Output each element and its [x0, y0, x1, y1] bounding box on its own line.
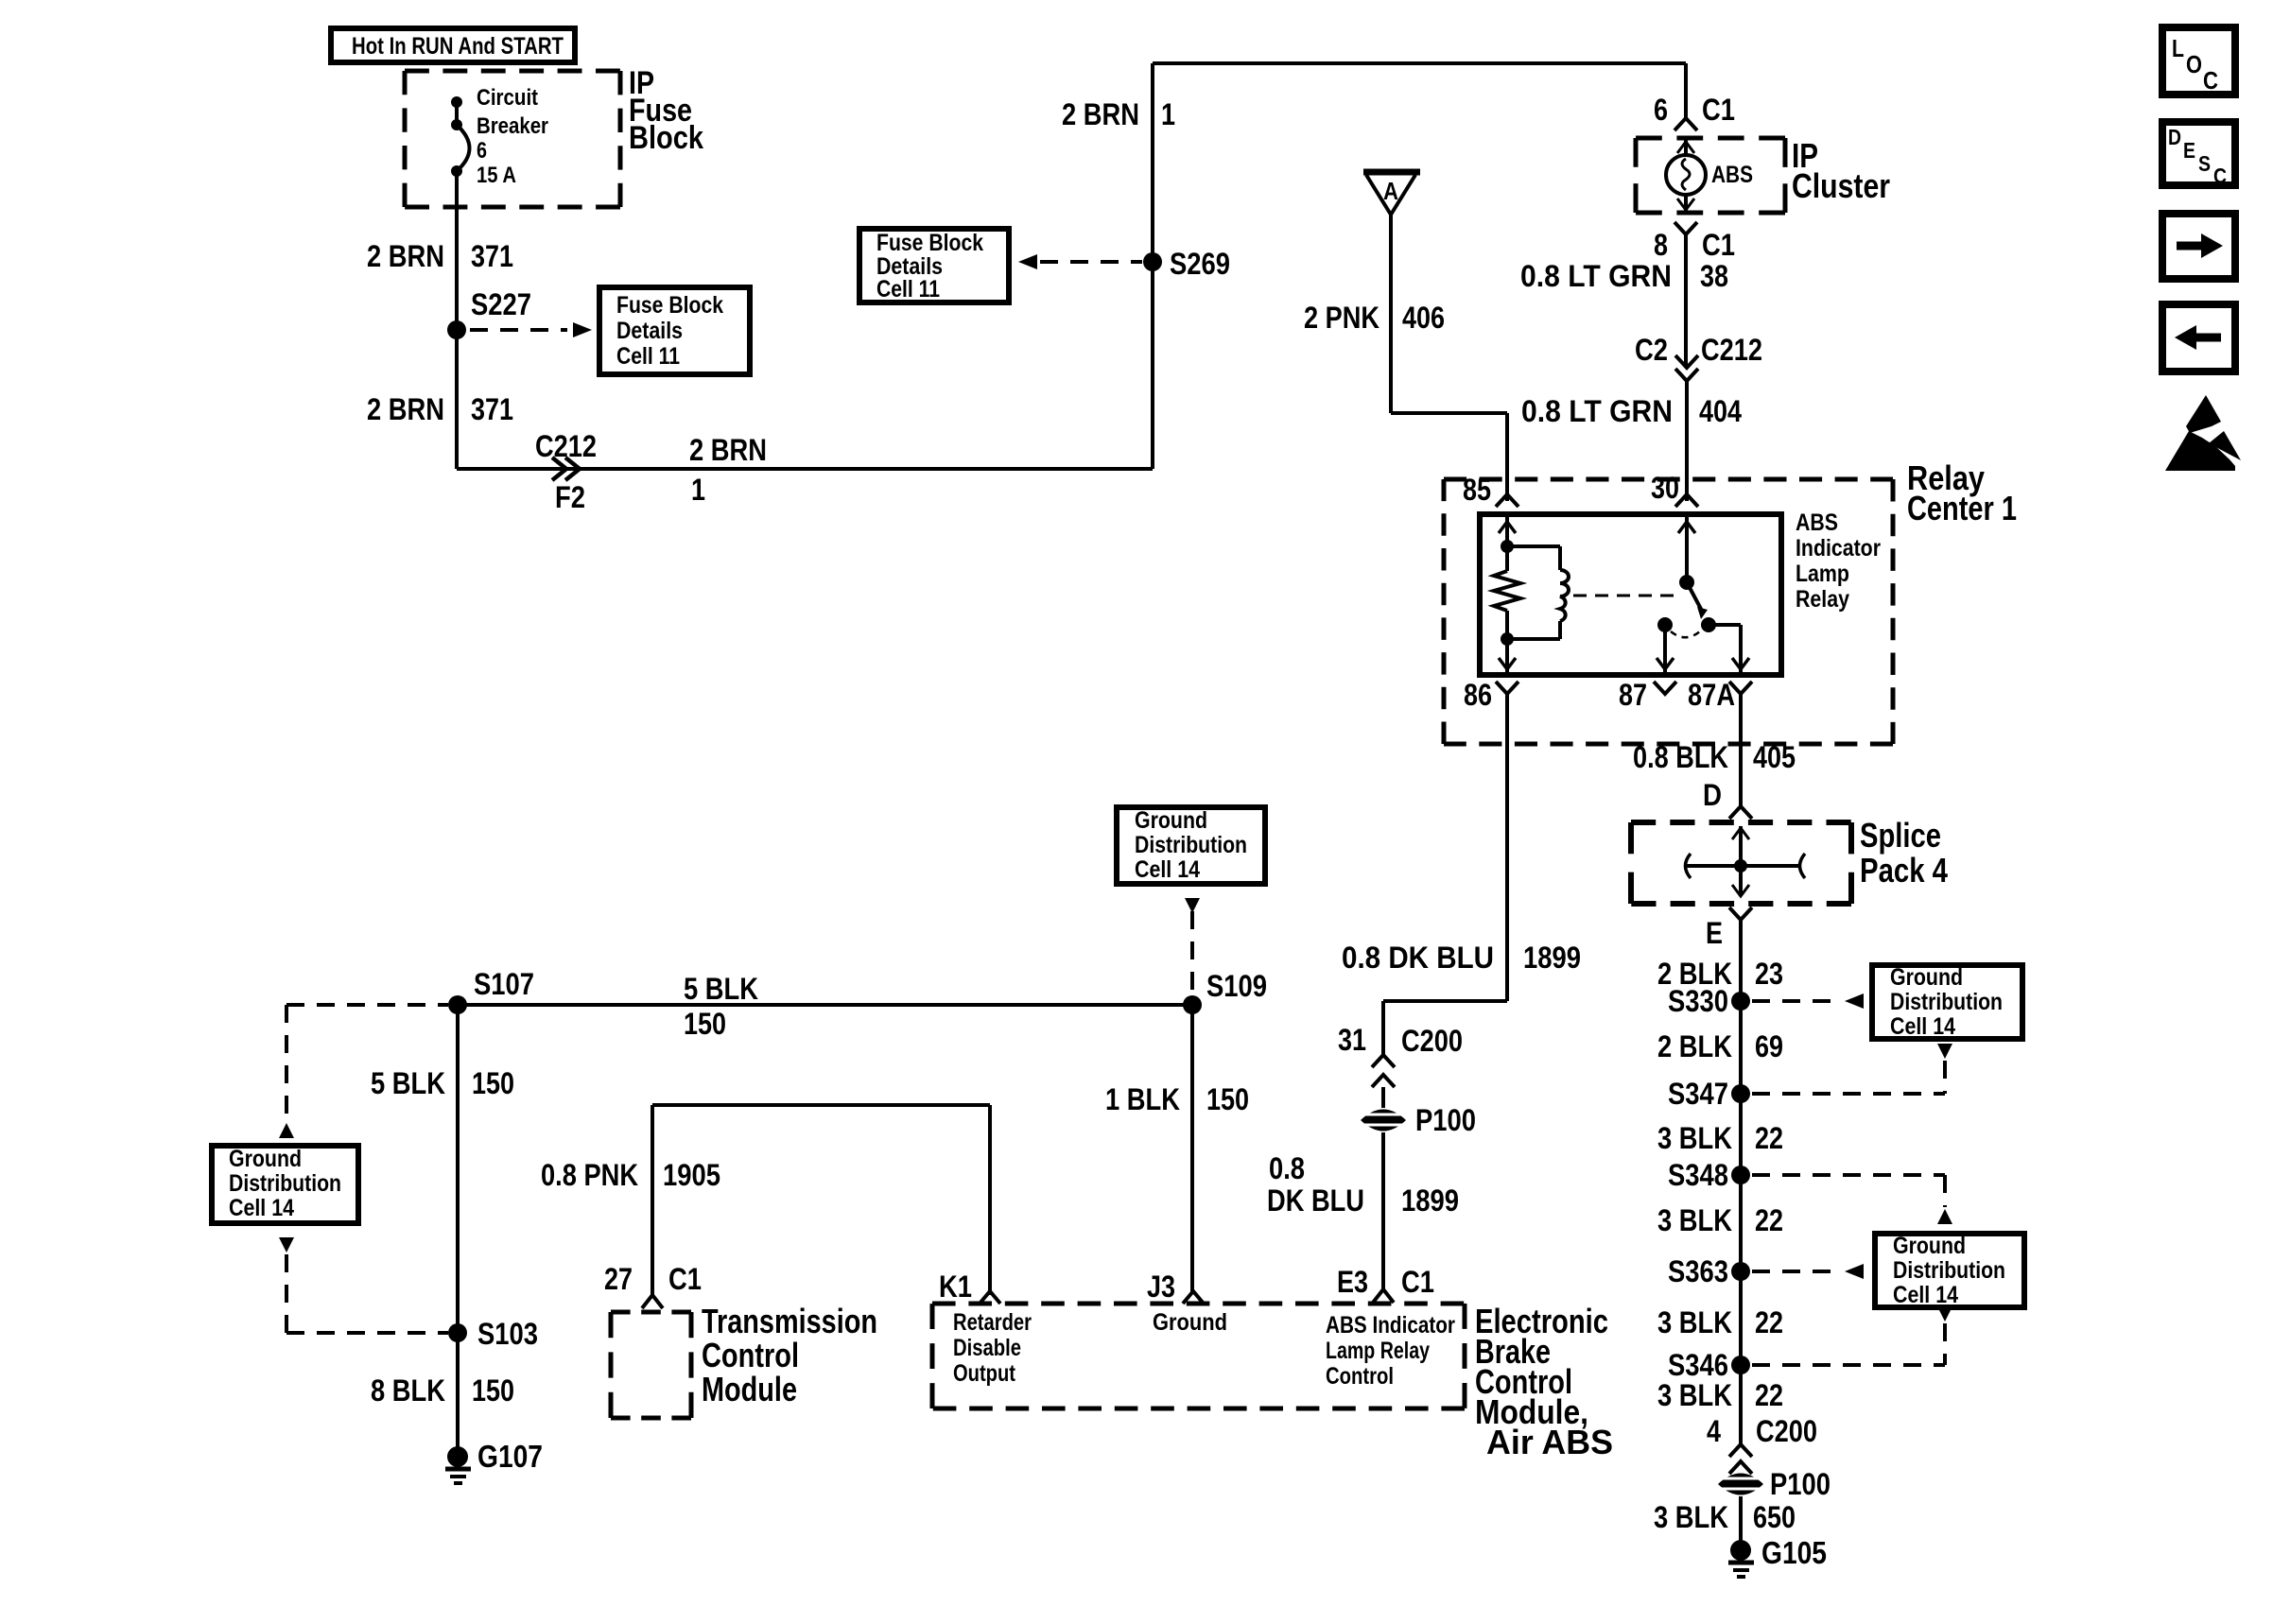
svg-text:Ground: Ground	[1153, 1309, 1227, 1336]
splice pack internals	[1685, 826, 1805, 896]
label: 5 BLK 150 (horizontal run)	[684, 972, 758, 1041]
label: 0.8 DK BLU 1899	[1342, 941, 1581, 975]
label: 5 BLK 150 (vertical)	[371, 1066, 514, 1100]
svg-text:P100: P100	[1415, 1103, 1476, 1137]
svg-text:6: 6	[477, 138, 487, 164]
callout box: Ground Distribution Cell 14 (lower right)	[1875, 1233, 2024, 1308]
pin function: Retarder Disable Output	[953, 1309, 1032, 1387]
svg-text:371: 371	[471, 392, 513, 426]
svg-text:650: 650	[1753, 1500, 1796, 1534]
wire: top rail to IP cluster	[1153, 63, 1686, 118]
svg-text:Control: Control	[1326, 1363, 1394, 1390]
svg-text:S107: S107	[474, 967, 534, 1001]
wire: circuit breaker to C212 (2 BRN 371)	[455, 171, 459, 469]
svg-text:87: 87	[1619, 678, 1647, 712]
reference arrow: S363 to Ground Distribution	[1752, 1264, 1864, 1279]
svg-text:Indicator: Indicator	[1796, 535, 1881, 561]
svg-text:Distribution: Distribution	[1893, 1257, 2005, 1284]
svg-text:23: 23	[1755, 957, 1783, 991]
svg-text:2 BRN: 2 BRN	[367, 392, 444, 426]
wire: ground chain E to C200	[1739, 920, 1743, 1446]
svg-text:2 BLK: 2 BLK	[1657, 1029, 1732, 1063]
svg-text:150: 150	[472, 1373, 514, 1408]
svg-text:Ground: Ground	[1135, 807, 1207, 834]
sidebar icon: left arrow	[2162, 304, 2235, 371]
svg-text:ABS: ABS	[1796, 510, 1838, 536]
module label: Relay Center 1	[1907, 458, 2017, 527]
svg-text:C2: C2	[1635, 333, 1668, 367]
reference arrow: S330 to Ground Distribution	[1752, 993, 1864, 1009]
svg-text:C1: C1	[668, 1262, 702, 1296]
relay coil junction top	[1501, 540, 1514, 553]
wire: vertical up from horizontal feed to top rail	[1151, 63, 1154, 469]
svg-text:22: 22	[1755, 1203, 1783, 1237]
connector C212 F2 (inline, >>)	[535, 429, 597, 514]
label: 1 BLK 150	[1105, 1082, 1249, 1116]
svg-text:S269: S269	[1170, 247, 1230, 281]
wire: 0.8 PNK 1905 (TCM to EBCM K1)	[652, 1105, 990, 1295]
svg-text:Cell 14: Cell 14	[1893, 1282, 1958, 1308]
svg-text:C1: C1	[1702, 93, 1735, 127]
svg-text:K1: K1	[939, 1270, 972, 1304]
svg-text:Module: Module	[702, 1370, 797, 1408]
relay pin 87 connector	[1619, 678, 1676, 712]
svg-text:Splice: Splice	[1860, 816, 1941, 855]
svg-text:C: C	[2203, 66, 2218, 95]
splice S109	[1183, 969, 1267, 1014]
sidebar icon: ESD warning symbol	[2165, 395, 2241, 471]
node E	[1706, 907, 1752, 950]
pin 8 C1 of IP cluster	[1654, 222, 1735, 262]
svg-text:3 BLK: 3 BLK	[1657, 1305, 1732, 1339]
svg-text:C1: C1	[1702, 228, 1735, 262]
splice S107	[448, 967, 534, 1014]
svg-text:Circuit: Circuit	[477, 85, 538, 111]
svg-text:Lamp Relay: Lamp Relay	[1326, 1338, 1430, 1364]
label: 0.8 DK BLU 1899 (two line)	[1267, 1151, 1459, 1218]
label: 2 PNK 406	[1304, 301, 1445, 335]
svg-text:Cell 14: Cell 14	[1135, 856, 1200, 883]
svg-text:3 BLK: 3 BLK	[1654, 1500, 1728, 1534]
reference arrow: S227 to Fuse Block Details	[470, 322, 592, 337]
svg-text:406: 406	[1402, 301, 1445, 335]
svg-text:Output: Output	[953, 1360, 1016, 1387]
svg-text:Distribution: Distribution	[1135, 832, 1247, 858]
svg-text:0.8 BLK: 0.8 BLK	[1633, 740, 1728, 774]
pin E3 C1 of EBCM	[1337, 1265, 1434, 1303]
svg-text:S103: S103	[477, 1317, 538, 1351]
svg-text:0.8 LT GRN: 0.8 LT GRN	[1520, 259, 1672, 293]
pin K1 of EBCM	[939, 1270, 1000, 1304]
wire: 0.8 DK BLU 1899 (relay 86 to EBCM E3)	[1383, 694, 1507, 1055]
svg-text:8 BLK: 8 BLK	[371, 1373, 445, 1408]
svg-text:4: 4	[1707, 1414, 1721, 1448]
svg-text:Hot In RUN And START: Hot In RUN And START	[352, 33, 564, 60]
label: 2 BLK 69	[1657, 1029, 1783, 1063]
label: 2 BLK 23	[1657, 957, 1783, 991]
svg-text:E: E	[2183, 138, 2195, 163]
module label: IP Cluster	[1792, 136, 1890, 205]
svg-text:5 BLK: 5 BLK	[371, 1066, 445, 1100]
reference link: Ground Distribution to S347	[1752, 1044, 1952, 1094]
svg-text:Cell 11: Cell 11	[616, 343, 680, 370]
connector C2 C212 (inline)	[1635, 333, 1762, 381]
svg-text:S348: S348	[1668, 1158, 1728, 1192]
label: 2 BRN 371 (upper)	[367, 239, 513, 273]
svg-text:Breaker: Breaker	[477, 113, 548, 139]
node D	[1703, 778, 1752, 819]
svg-text:0.8: 0.8	[1269, 1151, 1305, 1185]
splice S348	[1668, 1158, 1750, 1192]
svg-text:F2: F2	[555, 480, 585, 514]
module label: Splice Pack 4	[1860, 816, 1948, 890]
callout box: Ground Distribution Cell 14 (top middle)	[1117, 807, 1265, 884]
svg-text:0.8 LT GRN: 0.8 LT GRN	[1521, 394, 1673, 428]
pin 6 C1 of IP cluster	[1654, 93, 1735, 130]
Transmission Control Module (dashed box)	[611, 1312, 691, 1418]
label: 2 BRN 1 (top vertical wire)	[1062, 97, 1175, 131]
splice S346	[1668, 1348, 1750, 1382]
svg-text:S347: S347	[1668, 1077, 1728, 1111]
circuit breaker 6 (15 A)	[451, 85, 548, 188]
power source box: Hot In RUN And START	[331, 28, 575, 62]
connector 31 C200 (inline)	[1338, 1023, 1463, 1087]
svg-text:Cluster: Cluster	[1792, 166, 1890, 205]
svg-text:Retarder: Retarder	[953, 1309, 1032, 1336]
ABS indicator lamp in cluster	[1666, 138, 1753, 213]
svg-text:405: 405	[1753, 740, 1796, 774]
svg-text:C: C	[2213, 164, 2227, 188]
reference arrow: S269 to Fuse Block Details	[1018, 254, 1142, 269]
svg-text:85: 85	[1463, 473, 1491, 507]
label: 0.8 LT GRN 404	[1521, 394, 1742, 428]
svg-text:S363: S363	[1668, 1254, 1728, 1288]
svg-text:J3: J3	[1147, 1270, 1175, 1304]
svg-text:5 BLK: 5 BLK	[684, 972, 758, 1006]
relay pin 86 connector	[1464, 678, 1518, 712]
reference link: S348 to Ground Distribution	[1752, 1175, 1952, 1224]
IP Cluster (dashed box)	[1636, 138, 1785, 213]
connector 4 C200 (inline)	[1707, 1414, 1817, 1474]
svg-text:15 A: 15 A	[477, 163, 516, 188]
callout box: Ground Distribution Cell 14 (upper right)	[1872, 964, 2022, 1040]
label: 3 BLK 22 (S347-S348)	[1657, 1121, 1783, 1155]
svg-text:6: 6	[1654, 93, 1668, 127]
module label: Electronic Brake Control Module, Air ABS	[1475, 1302, 1613, 1461]
svg-text:1 BLK: 1 BLK	[1105, 1082, 1180, 1116]
svg-text:ABS: ABS	[1711, 162, 1753, 188]
svg-text:150: 150	[684, 1007, 726, 1041]
svg-text:S330: S330	[1668, 984, 1728, 1018]
wire: horizontal feed to S269 branch (2 BRN 1)	[457, 467, 1153, 471]
relay pin 30	[1651, 471, 1698, 507]
svg-text:22: 22	[1755, 1121, 1783, 1155]
svg-text:E: E	[1706, 916, 1723, 950]
svg-text:69: 69	[1755, 1029, 1783, 1063]
svg-text:A: A	[1383, 177, 1398, 205]
svg-text:S109: S109	[1206, 969, 1267, 1003]
relay pin 85	[1463, 473, 1518, 507]
splice S103	[448, 1317, 538, 1351]
wire: 2 PNK 406 (A to relay pin 85)	[1391, 215, 1507, 501]
label: 8 BLK 150	[371, 1373, 514, 1408]
wire: S109 to EBCM J3 (1 BLK 150)	[1190, 1005, 1194, 1291]
svg-text:22: 22	[1755, 1378, 1783, 1412]
svg-text:3 BLK: 3 BLK	[1657, 1203, 1732, 1237]
grommet P100 (right)	[1718, 1467, 1831, 1501]
relay pin 87A connector	[1688, 678, 1752, 712]
svg-text:22: 22	[1755, 1305, 1783, 1339]
svg-text:2 BRN: 2 BRN	[1062, 97, 1139, 131]
svg-text:2 BRN: 2 BRN	[689, 433, 767, 467]
Splice Pack 4 (dashed box)	[1631, 822, 1851, 904]
pin 27 C1 of TCM	[604, 1262, 702, 1308]
svg-text:86: 86	[1464, 678, 1492, 712]
relay pin 86 internal arrow	[1499, 639, 1516, 675]
svg-text:38: 38	[1700, 259, 1728, 293]
svg-text:2 PNK: 2 PNK	[1304, 301, 1379, 335]
splice S330	[1668, 984, 1750, 1018]
svg-text:1899: 1899	[1401, 1183, 1459, 1218]
svg-text:1905: 1905	[663, 1158, 720, 1192]
svg-text:Center 1: Center 1	[1907, 489, 2017, 527]
off-page connector A (triangle)	[1363, 172, 1420, 215]
svg-text:Relay: Relay	[1796, 586, 1849, 613]
sidebar icon: LOC	[2162, 27, 2235, 95]
svg-text:371: 371	[471, 239, 513, 273]
svg-text:Fuse Block: Fuse Block	[616, 292, 723, 319]
svg-text:Details: Details	[616, 318, 683, 344]
svg-text:Lamp: Lamp	[1796, 561, 1849, 587]
svg-text:150: 150	[472, 1066, 514, 1100]
svg-text:Block: Block	[629, 120, 703, 156]
splice S227	[447, 287, 531, 339]
wire: 0.8 LT GRN 404 (C212 to relay pin 30)	[1685, 381, 1689, 501]
svg-text:Transmission: Transmission	[702, 1302, 877, 1340]
relay contact 87	[1657, 617, 1701, 675]
svg-text:Air ABS: Air ABS	[1486, 1423, 1613, 1461]
wire: 0.8 LT GRN 38 (cluster to C212)	[1684, 234, 1688, 367]
callout box: Ground Distribution Cell 14 (left)	[212, 1146, 358, 1223]
splice S269	[1143, 247, 1230, 281]
svg-text:S227: S227	[471, 287, 531, 321]
pin function: Ground	[1153, 1309, 1227, 1336]
svg-text:C212: C212	[1701, 333, 1762, 367]
svg-text:3 BLK: 3 BLK	[1657, 1378, 1732, 1412]
svg-text:3 BLK: 3 BLK	[1657, 1121, 1732, 1155]
svg-text:C200: C200	[1756, 1414, 1817, 1448]
svg-text:87A: 87A	[1688, 678, 1735, 712]
callout box: Fuse Block Details Cell 11 (left)	[599, 287, 750, 374]
svg-text:L: L	[2172, 34, 2184, 62]
Electronic Brake Control Module (dashed box)	[932, 1304, 1465, 1408]
ABS Indicator Lamp Relay (solid box)	[1480, 514, 1781, 675]
ground G105	[1728, 1496, 1827, 1577]
relay coil input arrow (pin 85)	[1499, 514, 1516, 546]
relay coil junction bottom	[1501, 632, 1514, 646]
wire: 0.8 BLK 405 (87A to splice pack)	[1739, 694, 1743, 806]
relay function label: ABS Indicator Lamp Relay	[1796, 510, 1881, 613]
svg-text:Ground: Ground	[229, 1146, 302, 1172]
module label: IP Fuse Block	[629, 65, 703, 156]
svg-text:Fuse Block: Fuse Block	[876, 230, 983, 256]
svg-text:Control: Control	[702, 1336, 799, 1374]
svg-text:P100: P100	[1770, 1467, 1831, 1501]
label: 0.8 PNK 1905	[541, 1158, 720, 1192]
resistor (relay coil suppression)	[1494, 546, 1520, 639]
label: 3 BLK 650	[1654, 1500, 1796, 1534]
pin J3 of EBCM	[1147, 1270, 1204, 1304]
Relay Center 1 (dashed box)	[1444, 479, 1893, 744]
reference link: Ground Distribution to S346	[1752, 1306, 1952, 1365]
IP Fuse Block (dashed box)	[405, 71, 620, 207]
relay pin 87A internal wire	[1732, 625, 1749, 675]
svg-text:0.8 PNK: 0.8 PNK	[541, 1158, 638, 1192]
relay contact 87A	[1701, 617, 1741, 632]
svg-text:ABS Indicator: ABS Indicator	[1326, 1312, 1455, 1339]
module label: Transmission Control Module	[702, 1302, 877, 1408]
svg-text:Ground: Ground	[1890, 964, 1963, 991]
svg-text:C200: C200	[1401, 1024, 1463, 1058]
callout box: Fuse Block Details Cell 11 (middle)	[859, 229, 1009, 302]
svg-text:Cell 14: Cell 14	[229, 1195, 294, 1221]
pin function: ABS Indicator Lamp Relay Control	[1326, 1312, 1455, 1390]
svg-text:8: 8	[1654, 228, 1668, 262]
svg-text:150: 150	[1206, 1082, 1249, 1116]
svg-text:30: 30	[1651, 471, 1679, 505]
relay switch common (pin 30)	[1678, 514, 1695, 590]
svg-text:S: S	[2198, 151, 2211, 176]
label: 2 BRN 371 (lower)	[367, 392, 513, 426]
svg-text:1: 1	[1161, 97, 1175, 131]
svg-text:O: O	[2186, 50, 2202, 78]
label: 0.8 LT GRN 38	[1520, 259, 1728, 293]
label: 3 BLK 22 (S346-C200)	[1657, 1378, 1783, 1412]
relay actuation link (dashed)	[1573, 595, 1679, 597]
svg-text:2 BRN: 2 BRN	[367, 239, 444, 273]
wire: S107 to S109 (5 BLK 150)	[458, 1003, 1192, 1007]
reference link: S107 to Ground Distribution (dashed)	[279, 1005, 448, 1138]
grommet P100 (left)	[1361, 1087, 1476, 1137]
svg-text:1899: 1899	[1523, 941, 1581, 975]
wire: DK BLU to EBCM pin E3	[1381, 1132, 1385, 1291]
svg-text:Disable: Disable	[953, 1335, 1021, 1361]
svg-text:D: D	[1703, 778, 1722, 812]
svg-text:DK BLU: DK BLU	[1267, 1183, 1364, 1218]
svg-text:0.8 DK BLU: 0.8 DK BLU	[1342, 941, 1494, 975]
svg-text:Cell 11: Cell 11	[876, 276, 940, 302]
sidebar icon: DESC	[2162, 122, 2235, 188]
relay coil winding	[1507, 546, 1569, 639]
label: 2 BRN 1 (on horizontal wire)	[689, 433, 767, 507]
label: 3 BLK 22 (S363-S346)	[1657, 1305, 1783, 1339]
reference link: Ground Distribution to S103 (dashed)	[279, 1237, 448, 1333]
label: 0.8 BLK 405	[1633, 740, 1796, 774]
reference link: S109 to Ground Distribution	[1185, 898, 1200, 993]
svg-text:G107: G107	[477, 1439, 543, 1474]
svg-text:C1: C1	[1401, 1265, 1434, 1299]
splice S363	[1668, 1254, 1750, 1288]
svg-text:Pack 4: Pack 4	[1860, 851, 1948, 890]
splice S347	[1668, 1077, 1750, 1111]
svg-text:S346: S346	[1668, 1348, 1728, 1382]
svg-text:Ground: Ground	[1893, 1233, 1966, 1259]
svg-text:1: 1	[691, 473, 705, 507]
label: 3 BLK 22 (S348-S363)	[1657, 1203, 1783, 1237]
wire: S107 to G107 (ground leg)	[456, 1005, 460, 1457]
ground G107	[445, 1439, 543, 1483]
sidebar icon: right arrow	[2162, 214, 2235, 279]
svg-text:Cell 14: Cell 14	[1890, 1013, 1955, 1040]
svg-text:404: 404	[1699, 394, 1742, 428]
svg-text:D: D	[2168, 125, 2181, 149]
relay switch arm	[1687, 582, 1708, 619]
svg-text:Distribution: Distribution	[1890, 989, 2003, 1015]
svg-text:Distribution: Distribution	[229, 1170, 341, 1197]
svg-text:G105: G105	[1761, 1535, 1827, 1570]
svg-text:31: 31	[1338, 1023, 1366, 1057]
svg-text:27: 27	[604, 1262, 633, 1296]
svg-text:E3: E3	[1337, 1265, 1368, 1299]
